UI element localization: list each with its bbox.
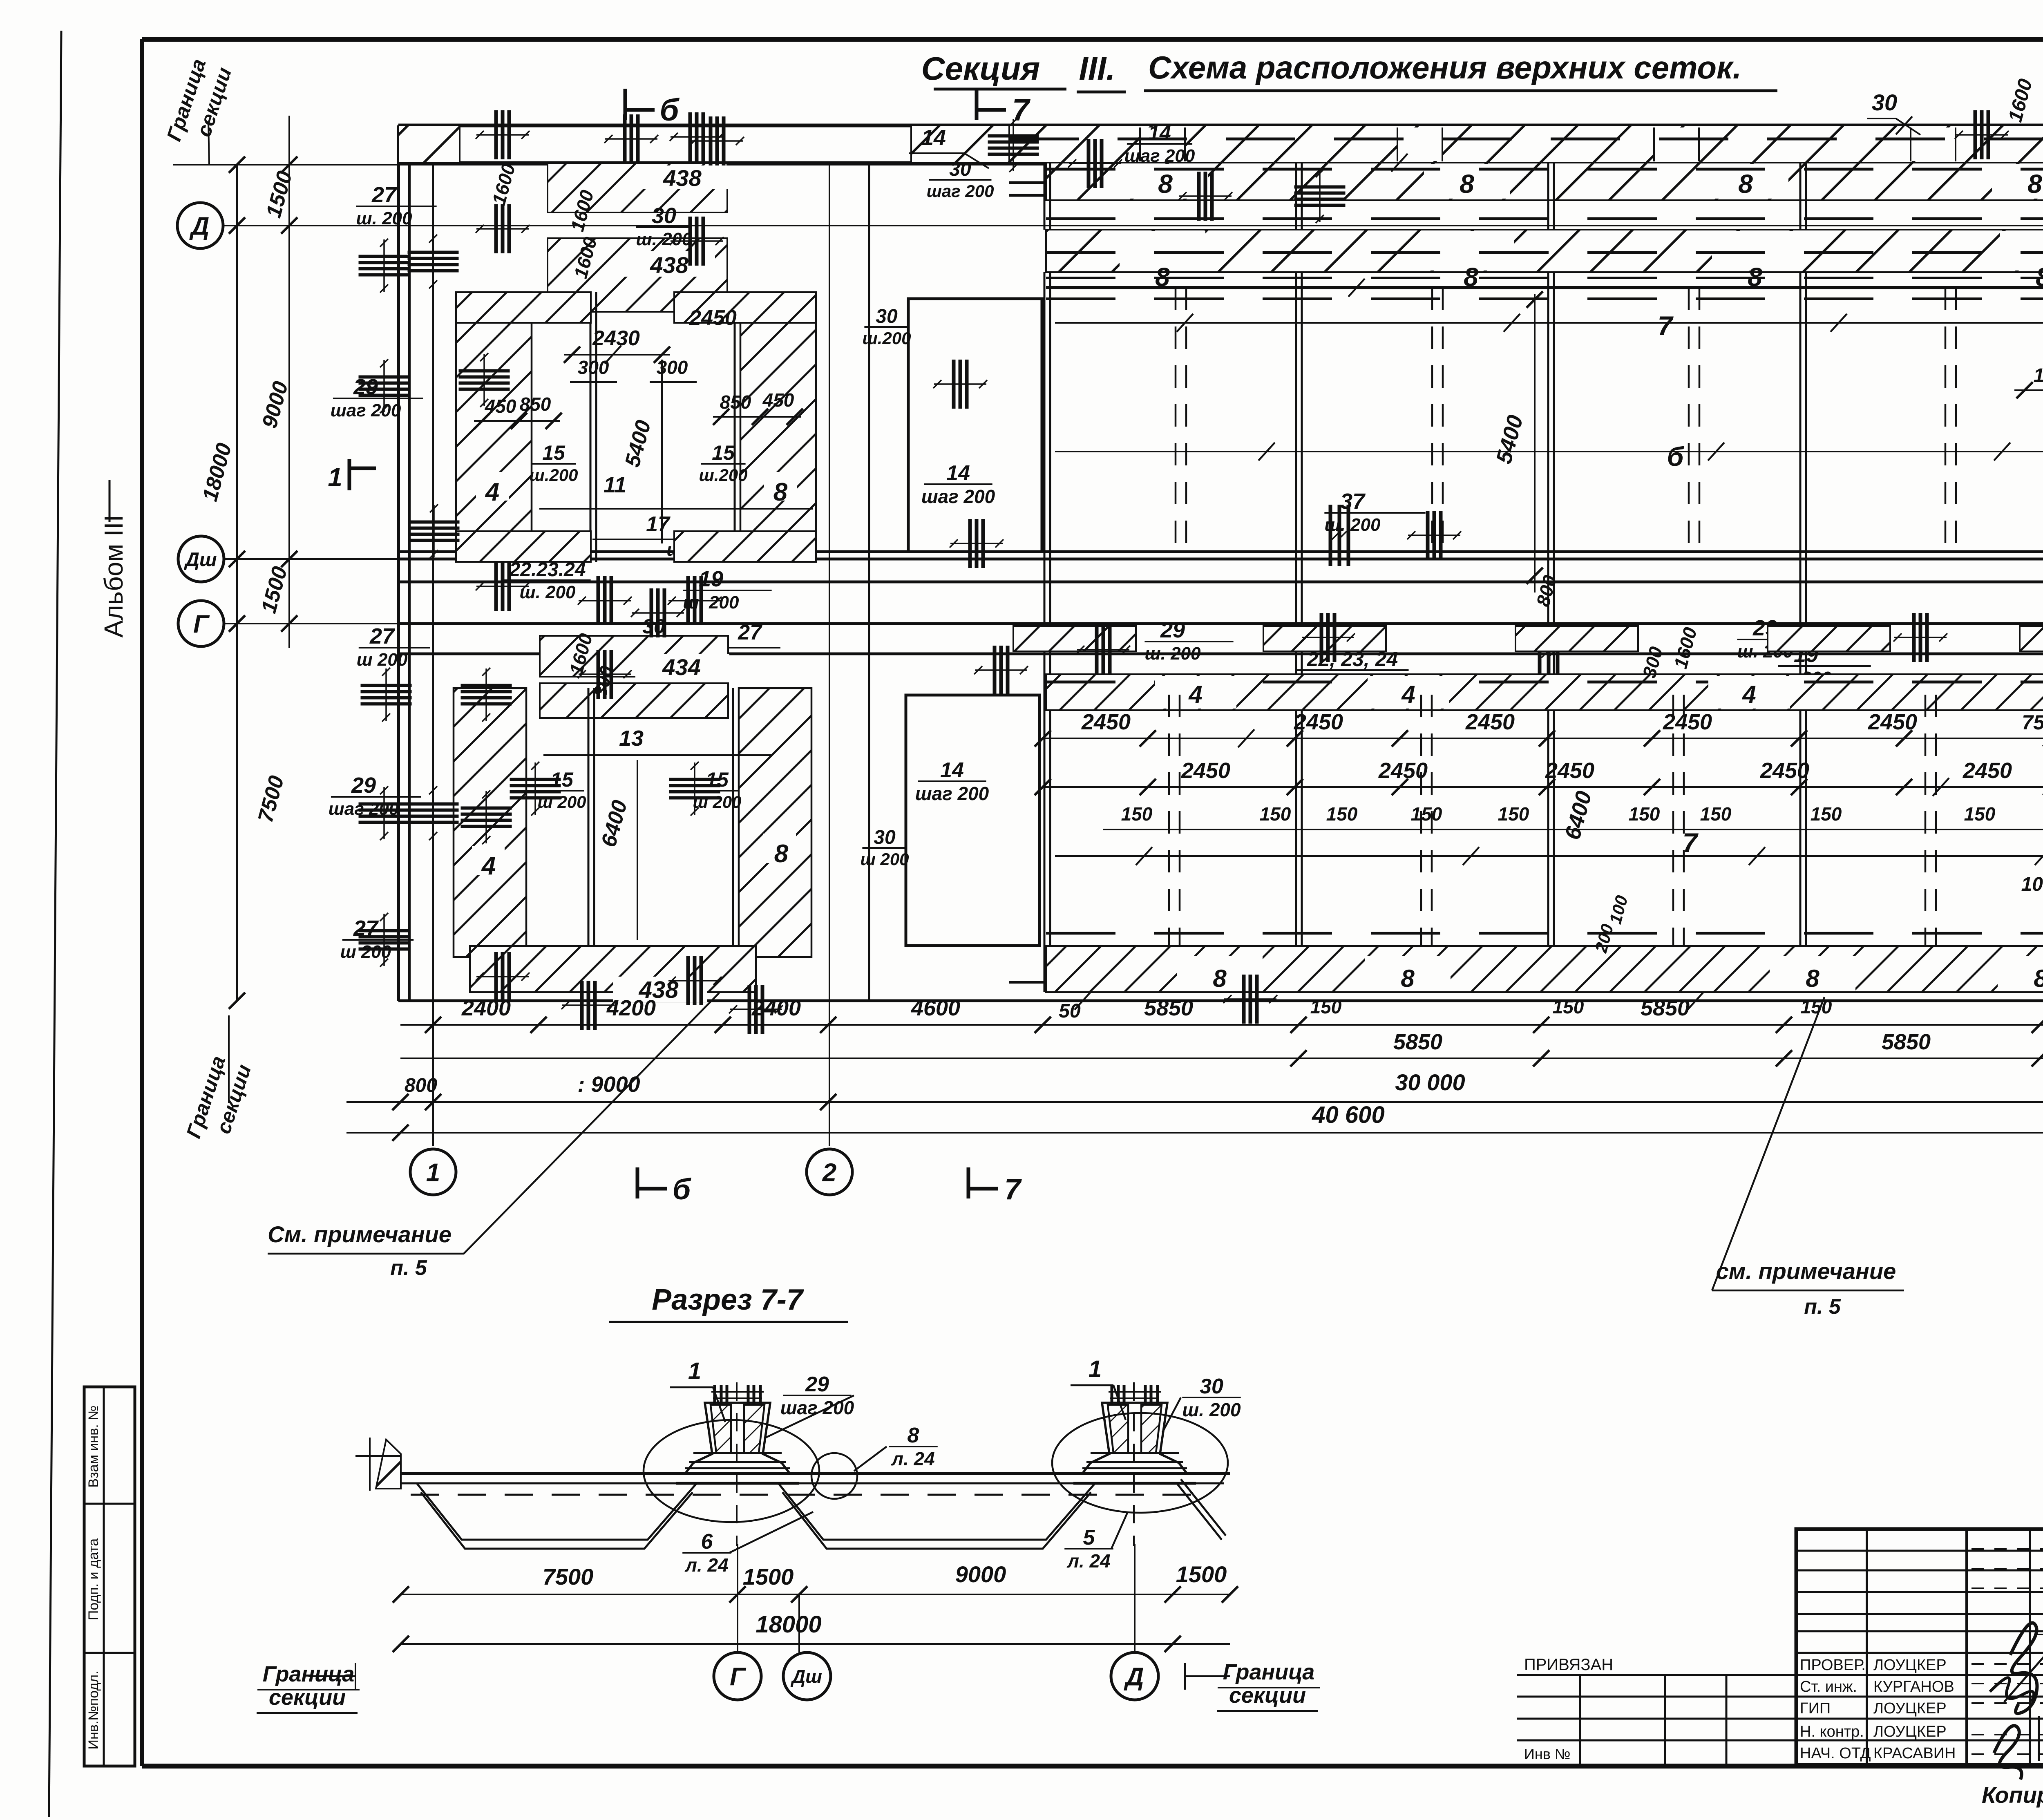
lower tanks mid line [1055, 855, 2043, 857]
svg-text:ш. 200: ш. 200 [356, 208, 413, 228]
svg-text:1: 1 [688, 1358, 701, 1384]
corridor wall line Дш [398, 558, 2043, 561]
strip2 white notch 4 [2000, 231, 2043, 271]
svg-text:2450: 2450 [1294, 710, 1343, 734]
corridor hatch stub lower 2 [1263, 626, 1386, 651]
chain1 tick at 1769 [715, 1017, 731, 1033]
svg-text:1000: 1000 [2034, 365, 2043, 387]
svg-text:11: 11 [604, 473, 626, 497]
svg-text:4200: 4200 [606, 996, 656, 1020]
svg-text:Г: Г [730, 1663, 747, 1691]
tank wall through corridor 3 [1547, 559, 1549, 710]
rebar cluster V27 [933, 360, 987, 409]
svg-text:850: 850 [720, 391, 751, 413]
label 434 (lower center) [635, 654, 729, 679]
svg-text:150: 150 [1121, 803, 1153, 825]
plan left wall (double line) [397, 125, 400, 1001]
dim row 2450 upper line [1043, 738, 2043, 739]
rebar cluster V48 [1223, 975, 1277, 1024]
svg-text:1500: 1500 [743, 1564, 794, 1590]
svg-text:Альбом III: Альбом III [99, 515, 128, 638]
chain2 tick at 3772 [1533, 1050, 1549, 1067]
dim chain row4 line (40600) [346, 1132, 2043, 1134]
svg-text:8: 8 [1738, 169, 1753, 199]
svg-text:13: 13 [619, 726, 644, 751]
label 438 (mid center) [625, 251, 715, 277]
label 8 (lower pier B) [763, 834, 796, 863]
svg-text:2450: 2450 [689, 306, 737, 330]
left block: pier A hatch (label 4) [456, 292, 532, 562]
svg-text:ш.200: ш.200 [862, 329, 911, 348]
svg-text:14: 14 [940, 758, 964, 782]
svg-text:2450: 2450 [1545, 758, 1594, 783]
svg-text:8: 8 [2027, 169, 2042, 199]
svg-text:8: 8 [908, 1424, 919, 1447]
rebar cluster V14 [668, 576, 722, 625]
svg-text:Секция: Секция [921, 50, 1040, 87]
section tank profile 1 [417, 1483, 697, 1540]
svg-text:ПРИВЯЗАН: ПРИВЯЗАН [1524, 1656, 1613, 1674]
left block: pier B hatch (label 8) [740, 292, 816, 562]
label 4 (lower pier A) [472, 846, 505, 875]
top wall opening gap 3 [1654, 127, 1699, 161]
title block left grid rows [1796, 1550, 2043, 1552]
corridor hatch stub lower 5 [2020, 626, 2043, 651]
svg-text:150: 150 [1326, 803, 1358, 825]
svg-text:2450: 2450 [1465, 710, 1515, 734]
left margin stamp table frame [84, 1387, 135, 1766]
svg-text:30: 30 [876, 306, 898, 327]
attachment table columns [1579, 1675, 1581, 1765]
rebar cluster V28 [1407, 511, 1461, 560]
rebar cluster H16 [361, 668, 412, 722]
svg-text:7: 7 [1012, 93, 1031, 127]
svg-text:2: 2 [822, 1158, 836, 1187]
svg-text:29: 29 [351, 773, 376, 798]
svg-text:7500: 7500 [543, 1564, 594, 1590]
break slash mark at 4500,790 [1831, 314, 1847, 332]
svg-text:см. примечание: см. примечание [1716, 1258, 1896, 1284]
svg-text:Н. контр.: Н. контр. [1800, 1723, 1864, 1740]
chain2 tick at 4992 [2032, 1050, 2043, 1067]
section balloon circle (8 л.24) [811, 1453, 857, 1499]
tank wall through corridor 1 [1044, 559, 1046, 710]
upper tanks inner top line [1055, 322, 2043, 324]
svg-text:150: 150 [1553, 996, 1584, 1017]
rebar cluster H24 [510, 762, 561, 816]
svg-text:5: 5 [1083, 1526, 1095, 1549]
section balloon oval (right node) [1052, 1413, 1228, 1513]
svg-text:4: 4 [485, 478, 499, 506]
svg-text:30 000: 30 000 [1395, 1069, 1465, 1095]
rebar cluster V2 [476, 204, 530, 253]
svg-text:800: 800 [405, 1075, 437, 1096]
section mark б (bottom) [637, 1167, 692, 1206]
rebar cluster H20 [408, 786, 459, 840]
svg-text:4: 4 [1401, 681, 1415, 708]
section drop line Дш [798, 1594, 800, 1652]
svg-text:Дш: Дш [183, 549, 217, 570]
lower strip white notch 3 [1708, 676, 1790, 709]
svg-text:30: 30 [874, 827, 896, 848]
rebar cluster V25 [950, 519, 1004, 568]
section pedestal at Д [1082, 1403, 1187, 1473]
svg-text:434: 434 [662, 654, 700, 680]
svg-text:50: 50 [1059, 1000, 1081, 1022]
svg-text:шаг 200: шаг 200 [1124, 146, 1195, 166]
label 8 (pier B) [764, 472, 797, 501]
lower strip dashed line [1046, 681, 2043, 684]
lower tank wall vertical 4 [1799, 710, 1802, 992]
svg-text:8: 8 [1460, 169, 1474, 199]
axis line Д [223, 225, 2043, 226]
rebar cluster V3 [670, 217, 724, 266]
rebar cluster H21 [359, 786, 410, 840]
svg-text:п. 5: п. 5 [390, 1256, 427, 1280]
rebar cluster H8 [459, 353, 510, 407]
svg-text:2430: 2430 [592, 326, 640, 350]
svg-text:27: 27 [738, 621, 762, 644]
svg-text:7: 7 [1004, 1173, 1022, 1206]
svg-text:ш. 200: ш. 200 [683, 593, 740, 613]
title block vertical 4813 [1965, 1529, 1968, 1765]
axis circle Г [178, 601, 224, 646]
rebar cluster H32 [1294, 169, 1346, 223]
chain1 tick at 1318 [530, 1017, 547, 1033]
left block: bottom tie hatch b [674, 531, 816, 562]
svg-text:5850: 5850 [1393, 1030, 1442, 1054]
lower tank wall vertical 2 [1295, 710, 1297, 992]
axis circle 1 [410, 1149, 456, 1195]
rebar cluster V18 [476, 952, 530, 1001]
axis line Дш [224, 558, 398, 560]
upper tank wall vertical 3 [1547, 272, 1549, 559]
dim chain row2 line [1043, 1058, 2043, 1059]
rebar cluster V10 [578, 576, 632, 625]
top wall opening gap 2 [1397, 127, 1442, 161]
corridor wall line Г [398, 622, 2043, 625]
axis circle Дш [178, 536, 224, 582]
chain2 tick at 4366 [1776, 1050, 1792, 1067]
svg-text:8: 8 [1401, 965, 1415, 992]
section pedestal at Г [685, 1403, 790, 1473]
lower tank wall vertical 1 [1044, 710, 1046, 992]
section axis circle Г [714, 1652, 761, 1700]
svg-text:30: 30 [1872, 89, 1897, 115]
svg-text:ЛОУЦКЕР: ЛОУЦКЕР [1873, 1657, 1947, 1674]
dim chain row1 line [400, 1024, 2043, 1026]
rebar cluster H5 [359, 239, 410, 293]
svg-text:ПРОВЕР.: ПРОВЕР. [1800, 1657, 1866, 1674]
svg-text:4: 4 [1742, 681, 1756, 708]
break slash mark at 4300,2095 [1749, 847, 1765, 865]
attachment table top row line [1517, 1674, 1796, 1676]
top wall opening gap 1 [1140, 127, 1185, 161]
svg-text:1500: 1500 [1176, 1561, 1227, 1587]
svg-text:17: 17 [646, 512, 671, 536]
dim row 2450 lower line [1043, 786, 2043, 788]
upper tank wall vertical 2 [1295, 272, 1297, 559]
svg-text:8: 8 [774, 840, 789, 868]
rebar cluster V31 [1178, 172, 1232, 221]
bottom strip white notch 3 [1770, 956, 1855, 991]
svg-text:750: 750 [2022, 711, 2043, 734]
svg-text:Подп. и дата: Подп. и дата [86, 1538, 101, 1620]
svg-text:ш. 200: ш. 200 [636, 229, 693, 249]
svg-text:КРАСАВИН: КРАСАВИН [1873, 1745, 1956, 1762]
svg-text:Взам инв. №: Взам инв. № [86, 1405, 101, 1487]
svg-text:150: 150 [1629, 803, 1660, 825]
title block signature squiggles [2010, 1623, 2037, 1714]
svg-text:2450: 2450 [1081, 710, 1131, 734]
svg-text:См. примечание: См. примечание [268, 1221, 452, 1247]
chain1 tick at 3178 [1290, 1017, 1307, 1033]
upper tank wall vertical 1 [1044, 272, 1046, 559]
strip1 dashed mesh line [1046, 168, 2043, 171]
left block lower: center hatched head [540, 636, 728, 677]
lower tank wall vertical 3 [1547, 710, 1549, 992]
svg-text:ш. 200: ш. 200 [1182, 1399, 1241, 1420]
svg-text:30: 30 [949, 159, 971, 180]
lower strip hatched band (4-labels) [1046, 674, 2043, 710]
svg-text:18000: 18000 [756, 1611, 821, 1638]
left block lower: center hatch body [540, 683, 728, 718]
svg-text:4600: 4600 [911, 996, 960, 1020]
svg-text:150: 150 [1700, 803, 1732, 825]
axis line Г [224, 623, 398, 624]
bottom strip white notch 4 [1998, 956, 2043, 991]
break slash mark at 2650,2449 [1075, 992, 1091, 1010]
svg-text:Граница: Граница [263, 1662, 355, 1686]
left block: top tie strip hatch a [456, 292, 591, 323]
mesh dash row y535 [1046, 217, 2043, 220]
svg-text:8: 8 [1158, 169, 1173, 199]
svg-text:7: 7 [1658, 311, 1674, 341]
axis 2 vertical line [829, 165, 830, 1146]
svg-text:40 600: 40 600 [1312, 1102, 1384, 1128]
svg-text:2450: 2450 [1760, 758, 1809, 783]
break slash mark at 3100,1105 [1258, 443, 1275, 461]
lower strip white notch 2 [1368, 676, 1449, 709]
svg-text:150: 150 [1411, 803, 1442, 825]
tank wall stub through strips 1 [1044, 163, 1046, 230]
svg-text:2450: 2450 [1868, 710, 1917, 734]
svg-text:Г: Г [193, 610, 210, 638]
svg-text:шаг 200: шаг 200 [927, 181, 994, 201]
svg-text:150: 150 [1310, 996, 1342, 1017]
rebar cluster V46 [561, 981, 615, 1030]
svg-text:2450: 2450 [1181, 758, 1230, 783]
upper tanks top edge [1046, 286, 2043, 289]
rebar cluster H29 [988, 118, 1039, 172]
tank wall stub through strips 3 [1547, 163, 1549, 230]
svg-text:2450: 2450 [1963, 758, 2012, 783]
svg-text:ш 200: ш 200 [860, 850, 909, 869]
top wall mesh dashed line 2 [1009, 194, 2043, 197]
section slab dashed waterline [411, 1494, 1209, 1496]
svg-text:8: 8 [773, 478, 788, 506]
svg-text:5850: 5850 [1641, 996, 1690, 1020]
upper tank dashed partition 3 [1688, 288, 1690, 559]
top granitsa dim line [173, 164, 2043, 165]
svg-text:п. 5: п. 5 [1804, 1295, 1841, 1319]
break slash mark at 3600,2095 [1463, 847, 1479, 865]
left margin stamp row divider 1 [84, 1503, 135, 1505]
mesh dash row y340 (top band) [1009, 138, 2043, 141]
lower tank dashed partition 3 [1672, 695, 1674, 952]
svg-text:150: 150 [1801, 996, 1832, 1017]
svg-text:ш 200: ш 200 [357, 650, 408, 670]
strip2 white notch 2 [1428, 231, 1514, 271]
section drop line Г [737, 1544, 738, 1652]
bottom strip white notch 1 [1177, 956, 1263, 991]
rebar cluster V44 [1893, 613, 1947, 662]
left block: pier B inner line [734, 292, 736, 562]
lower strip white notch 1 [1155, 676, 1236, 709]
svg-text:НАЧ. ОТД: НАЧ. ОТД [1800, 1745, 1871, 1762]
left margin stamp row divider 2 [84, 1652, 135, 1654]
svg-text:14: 14 [946, 461, 970, 485]
svg-text:Д: Д [189, 212, 210, 240]
svg-text:300: 300 [578, 357, 609, 378]
chain1 tick at 3772 [1533, 1017, 1549, 1033]
drawing frame border [142, 37, 2043, 42]
bottom wall hatched band [1046, 946, 2043, 992]
rebar cluster V6 [604, 114, 658, 163]
chain1 tick at 2552 [1035, 1017, 1051, 1033]
svg-text:б: б [673, 1173, 692, 1206]
svg-text:б: б [659, 93, 680, 127]
section balloon oval (left node) [644, 1420, 819, 1522]
svg-text:9000: 9000 [955, 1561, 1006, 1587]
section axis circle Д [1111, 1652, 1158, 1700]
svg-text:КУРГАНОВ: КУРГАНОВ [1873, 1678, 1954, 1695]
section mark 7 (bottom) [968, 1167, 1022, 1206]
svg-text:450: 450 [762, 389, 794, 411]
left block lower: pier B hatch [739, 688, 811, 957]
rebar cluster H23 [669, 762, 720, 816]
break slash mark at 2900,790 [1177, 314, 1193, 332]
upper tank dashed partition 2 [1431, 288, 1433, 559]
break slash mark at 2800,2095 [1136, 847, 1152, 865]
chain1 tick at 4992 [2032, 1017, 2043, 1033]
svg-text:ш 200: ш 200 [693, 792, 741, 812]
bottom strip white notch 2 [1365, 956, 1451, 991]
svg-text:л. 24: л. 24 [684, 1554, 728, 1576]
rebar cluster V33 [1955, 110, 2009, 159]
svg-text:III.: III. [1079, 50, 1115, 87]
upper tanks mid line [1055, 451, 2043, 452]
axis circle 2 [807, 1149, 852, 1195]
svg-text:Копировал:: Копировал: [1982, 1782, 2043, 1808]
top wall hatched band (right) [1009, 125, 2043, 163]
svg-text:438: 438 [650, 252, 688, 278]
left block: top tie strip hatch b [674, 292, 816, 323]
chain1 tick at 2027 [820, 1017, 836, 1033]
dim 5400 vertical (left block) [661, 360, 663, 543]
lower tank dashed partition 1 [1168, 695, 1170, 952]
lower tanks bottom dashed [1046, 932, 2043, 935]
outer thin margin line (left) [49, 31, 61, 1817]
svg-text:Граница: Граница [1223, 1660, 1315, 1684]
tank wall stub through strips 2 [1295, 163, 1297, 230]
svg-text:27: 27 [371, 183, 398, 207]
left block: bottom tie hatch a [456, 531, 591, 562]
top wall mesh dashed line 1 [1009, 181, 2043, 184]
corridor hatch stub lower 3 [1515, 626, 1638, 651]
svg-text:ш.200: ш.200 [529, 465, 578, 485]
wall line x=2127 [868, 165, 870, 1001]
top wall hatched segment left-1 [398, 125, 460, 163]
strip1 white notch 3 [1703, 164, 1788, 199]
svg-text:ш 200: ш 200 [537, 792, 586, 812]
svg-text:30: 30 [1200, 1375, 1223, 1398]
svg-text:1: 1 [328, 463, 342, 492]
svg-text:1: 1 [426, 1158, 440, 1187]
svg-text:Ст. инж.: Ст. инж. [1800, 1678, 1857, 1695]
top wall opening gap 4 [1911, 127, 1956, 161]
svg-text:850: 850 [520, 394, 551, 415]
plan top wall outer face [398, 124, 2043, 127]
svg-text:4: 4 [1188, 681, 1202, 708]
rebar cluster V7 [690, 116, 744, 165]
rebar cluster H9 [359, 359, 410, 413]
rebar bars at 37 label [1330, 505, 1348, 566]
strip2 dashed mesh line [1046, 251, 2043, 254]
svg-text:30: 30 [642, 615, 665, 638]
corridor hatch stub lower 4 [1768, 626, 1890, 651]
section dim line 2 [401, 1643, 1230, 1645]
svg-text:29: 29 [805, 1373, 829, 1396]
rebar bars right of 22-24 label [1540, 625, 1558, 682]
rebar cluster H12 [409, 504, 460, 558]
strip1 white notch 4 [1992, 164, 2043, 199]
break slash mark at 4660,307 [1896, 116, 1912, 134]
corridor wall line 2 [398, 581, 2043, 584]
svg-text:6: 6 [701, 1530, 713, 1554]
rebar cluster V0 [476, 110, 530, 159]
chain1 tick at 1060 [425, 1017, 441, 1033]
rebar cluster V19 [668, 956, 722, 1005]
strip1 white notch 2 [1424, 164, 1510, 199]
section granitsa line right [1185, 1675, 1230, 1677]
left margin stamp table divider column [103, 1387, 105, 1766]
section drop line Д [1134, 1544, 1135, 1652]
svg-text:2450: 2450 [1663, 710, 1712, 734]
rebar cluster V11 [631, 588, 685, 637]
section left end wedge [376, 1440, 401, 1489]
svg-text:8: 8 [1213, 965, 1227, 992]
left block lower: pier B inner line [732, 688, 734, 957]
strip2 white notch 3 [1712, 231, 1798, 271]
svg-text:шаг 200: шаг 200 [921, 486, 995, 507]
svg-text:ЛОУЦКЕР: ЛОУЦКЕР [1873, 1700, 1947, 1717]
svg-text:29: 29 [1160, 618, 1185, 642]
rebar cluster V13 [476, 562, 530, 611]
corridor wall line 4 [398, 653, 2043, 655]
svg-text:Инв.№подл.: Инв.№подл. [86, 1671, 101, 1750]
svg-text:ш. 200: ш. 200 [520, 582, 576, 602]
svg-text:30: 30 [652, 203, 676, 228]
section mark 1 (left, upper) [348, 459, 351, 490]
rebar cluster V26 [974, 646, 1028, 695]
left block: center hatched body upper [548, 238, 727, 312]
upper tank dashed partition 4 [1945, 288, 1947, 559]
break slash mark at 3425,398 [1391, 154, 1408, 172]
axis 1 vertical line [432, 165, 434, 1146]
svg-text:шаг 200: шаг 200 [331, 400, 401, 420]
svg-text:Схема расположения верхних: Схема расположения верхних сеток. [1148, 49, 1741, 85]
